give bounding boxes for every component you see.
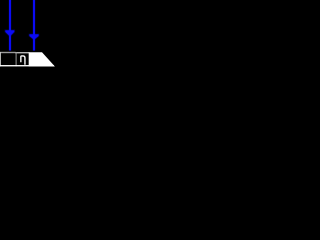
node C: eta label box top border [15, 52, 29, 53]
wire: left vertical edge line [0, 52, 2, 67]
node E: eta symbol label (drawn as path) [21, 56, 25, 65]
wire: right incident ray halo [33, 0, 36, 51]
wire: left incident ray halo [9, 0, 12, 51]
node C: eta label box left border [16, 52, 17, 66]
node B: right ray arrowhead halo [29, 34, 40, 41]
wire: right incident ray (vertical blue line) [33, 0, 35, 51]
node B: right ray arrowhead (points down) [29, 34, 38, 39]
node D: white wedge (filled prism corner) [29, 52, 55, 66]
node A: left ray arrowhead halo [5, 30, 16, 38]
wire: left incident ray (vertical blue line) [9, 0, 11, 51]
wire: bright bottom surface line [0, 65, 54, 66]
background [0, 0, 56, 67]
wire: gray surface line left segment [0, 52, 16, 53]
node A: left ray arrowhead (points down) [5, 30, 14, 36]
